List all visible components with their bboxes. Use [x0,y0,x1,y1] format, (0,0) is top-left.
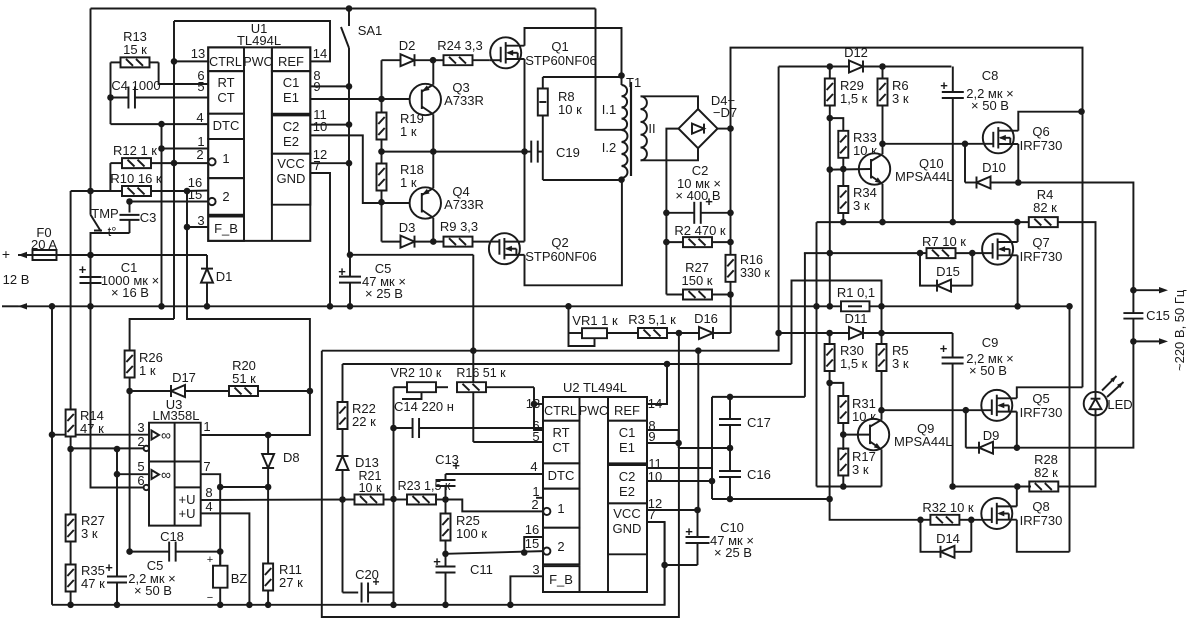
transistor Q10 MPSA44L [830,144,890,222]
wire bottom rail [52,522,665,605]
wire U2 pin7 gnd [647,522,665,605]
transistor Q8 IRF730 [971,498,1017,529]
svg-text:IRF730: IRF730 [1020,138,1063,153]
capacitor C5 47mk [338,255,361,306]
svg-text:VR1 1 к: VR1 1 к [572,313,618,328]
junction Q10 emitter row [879,219,886,226]
svg-text:27 к: 27 к [279,575,303,590]
svg-text:9: 9 [648,429,655,444]
junction R30 jog a [826,380,833,387]
wire R20 right to pin1 row [268,391,310,435]
wire U1 pin9 row [310,98,422,100]
resistor R7 10k [920,248,972,258]
junction D3 Q4 emitter [430,238,437,245]
wire U1 pin8 row [310,85,349,87]
label R30 1,5 к [840,343,868,371]
resistor R1 0,1 [841,301,870,311]
svg-text:R7 10 к: R7 10 к [922,234,966,249]
junction bridge right [727,125,734,132]
wire U1 pin7 down [310,173,330,306]
junction x698 plus row [695,347,702,354]
svg-text:TL494L: TL494L [237,33,281,48]
svg-text:C15: C15 [1146,308,1170,323]
junction R2 left [663,239,670,246]
potentiometer VR1 1k [569,328,640,346]
wire C10 bottom row [665,564,698,566]
svg-text:E1: E1 [619,440,635,455]
diode D16 [679,295,731,340]
junction rail x1069 [1066,303,1073,310]
wire left vertical to TMP [90,9,92,215]
wire U2 pin8 [647,430,679,448]
resistor R33 10k [838,131,848,186]
label D8 [283,450,300,465]
junction d16 row x778 [775,330,782,337]
node plus input arrow [2,246,27,262]
label Q10 [895,156,954,184]
capacitor C10 47mk [685,510,709,565]
label C2 [675,163,721,203]
wire output top row [1018,183,1133,291]
label R1 0,1 [837,285,875,300]
junction D13 res row [339,496,346,503]
svg-text:D14: D14 [936,531,960,546]
wire Q5 drain [1017,387,1083,398]
svg-text:8: 8 [205,485,212,500]
resistor R23 1,5 [394,495,446,505]
label C14 220 н [394,399,454,414]
label BZ [231,571,248,586]
label U1 [251,21,268,36]
junction R7 right [969,250,976,257]
U2 right column cells [608,397,647,554]
wire D16-D11 row [779,332,849,334]
junction R35 bottom [67,602,74,609]
label R31 10 к [852,396,876,424]
junction R2 right [727,239,734,246]
wire U2 pin9 [647,442,679,444]
wire R30 to R31 jog [830,383,844,397]
wire U2 pin13 stub [534,403,543,405]
svg-text:II: II [648,121,655,136]
wire pin15 to C3 [130,201,209,203]
junction link right [265,484,272,491]
svg-text:R1 0,1: R1 0,1 [837,285,875,300]
capacitor C3 [120,202,140,234]
transformer T1 secondary II [641,96,647,160]
node minus input arrow [2,303,27,309]
svg-text:C2: C2 [619,469,636,484]
wire pin16 jog [524,537,543,553]
U3 amp symbol b [152,467,172,483]
U3 amp symbol a [152,427,172,443]
svg-text:D2: D2 [399,38,416,53]
svg-text:3 к: 3 к [892,356,909,371]
label R27 3 к [81,513,105,541]
capacitor C17 [719,397,741,448]
label R11 27 к [279,562,303,590]
junction pin4 rail [246,602,253,609]
junction D2 Q3 emitter [430,57,437,64]
svg-text:∞: ∞ [161,427,171,443]
U1 pin 15 bubble [208,198,215,205]
svg-text:Q8: Q8 [1032,499,1049,514]
label R5 3 к [892,343,909,371]
junction pin1 x161 [158,145,165,152]
junction rail x1017 [1014,303,1021,310]
wire center tap feed [596,9,622,130]
wire LED to R28 [1057,416,1096,486]
wire Q1 drain to top [525,28,622,76]
resistor R34 3k [838,186,848,222]
wire x698 vcc up [697,352,699,510]
resistor R21 10k [355,495,394,505]
svg-text:REF: REF [614,403,640,418]
junction C19 left [521,148,528,155]
label C15 [1146,308,1170,323]
svg-text:GND: GND [613,521,642,536]
label 12 В [3,272,30,287]
label C9 [966,335,1014,378]
capacitor C9 2,2mk [940,333,964,487]
wire comparator row [343,363,792,365]
svg-text:CTRL: CTRL [209,55,242,69]
wire C3 bottom to switch [91,232,130,234]
label Q7 [1020,235,1063,264]
junction R30 top [826,330,833,337]
op-amp U1 outer box [208,47,310,241]
svg-text:R16 51 к: R16 51 к [456,366,506,380]
svg-text:× 50 В: × 50 В [971,98,1009,113]
svg-text:1: 1 [557,501,564,516]
capacitor C15 [1123,290,1143,341]
wire D3 left from R18 [381,202,383,241]
wire U3 pin2 row [71,447,145,449]
label R16 51 к [456,366,506,380]
junction x349 pin11row [346,121,353,128]
svg-text:16: 16 [525,522,539,537]
label C17 [747,415,771,430]
label R4 82 к [1033,187,1057,215]
svg-text:3: 3 [197,213,204,228]
svg-text:15: 15 [525,536,539,551]
svg-text:15: 15 [188,187,202,202]
svg-text:T1: T1 [626,75,641,90]
capacitor C1 [79,255,102,306]
transistor Q4 A733R [410,152,441,242]
wire DC bus down [1082,112,1084,388]
junction C16 bottom [727,496,734,503]
junction pin3 left rail [49,431,56,438]
wire x175 from top rail [173,21,175,319]
svg-text:~220 В, 50 Гц: ~220 В, 50 Гц [1172,289,1187,371]
U1 PWC divider [271,47,273,241]
svg-text:+U: +U [179,492,196,507]
wire +12V input rail [18,254,207,256]
junction R25 bottom [442,551,449,558]
resistor R18 1k [377,152,387,203]
svg-text:C16: C16 [747,467,771,482]
svg-text:R16: R16 [740,253,763,267]
wire res row to pin2 [446,500,544,512]
label R10 16 к [110,171,162,186]
label C3 [140,210,157,225]
svg-text:F_B: F_B [214,221,238,236]
junction R23 right C13 [442,496,449,503]
svg-text:+: + [940,78,948,93]
svg-text:5: 5 [137,459,144,474]
junction R18 bottom [378,199,385,206]
label C11 [470,562,493,577]
svg-text:PWC: PWC [243,55,272,69]
wire R28 left [953,486,1031,488]
svg-text:C19: C19 [556,145,580,160]
junction R27 right [727,291,734,298]
wire x187 feedback vertical [187,191,310,391]
svg-text:× 25 В: × 25 В [365,286,403,301]
junction R10 x90 [87,188,94,195]
wire x90 to minus rail [90,255,92,306]
svg-text:C1: C1 [283,75,300,90]
wire bridge left down [666,129,678,295]
U2 cell texts [544,403,641,587]
wire U2 pin10 [647,480,712,482]
label Q6 [1020,124,1063,153]
capacitor C19 [525,141,543,163]
wire top rail [91,8,596,10]
label I.1 [602,102,616,117]
resistor R2 470k [666,237,730,247]
svg-text:C9: C9 [982,335,999,350]
junction Q9 base [840,431,847,438]
svg-text:C18: C18 [160,529,184,544]
junction pin5 x117 [114,471,121,478]
label Q4 [444,184,484,212]
svg-text:A733R: A733R [444,93,484,108]
resistor R3 5,1k [638,328,679,338]
junction Q9 collector [878,407,885,414]
junction C5 top [347,252,354,259]
transistor Q9 MPSA44L [843,410,889,486]
svg-text:47 к: 47 к [81,576,105,591]
diode D14 [921,520,972,558]
junction D8 top [265,432,272,439]
capacitor C5b 2,2mk [105,448,127,604]
svg-text:PWC: PWC [579,404,608,418]
svg-text:REF: REF [278,54,304,69]
label C13 [435,452,459,467]
switch TMP [91,206,119,255]
svg-text:× 50 В: × 50 В [969,363,1007,378]
wire U1 pin11 row [310,124,349,126]
wire R32 gate feed [830,383,921,520]
label D4-D7 [711,93,737,120]
wire R4 right to LED [1057,222,1096,392]
junction C5b bottom [114,602,121,609]
svg-text:2: 2 [531,497,538,512]
label R27 150 к [682,260,713,288]
junction R7 left [917,250,924,257]
svg-text:4: 4 [196,110,203,125]
svg-text:C3: C3 [140,210,157,225]
svg-text:VR2 10 к: VR2 10 к [391,366,442,380]
svg-text:D11: D11 [845,311,868,326]
svg-text:82 к: 82 к [1034,465,1058,480]
junction R20 right x310 [307,388,314,395]
wire Q5 source [1016,412,1018,448]
svg-text:E2: E2 [619,484,635,499]
U2 pin numbers left [525,396,540,577]
junction x117 pin2 [114,446,121,453]
junction R29 jog [827,115,834,122]
svg-text:+: + [2,246,10,262]
svg-text:7: 7 [313,158,320,173]
capacitor C14 220n [394,418,544,438]
svg-text:t°: t° [108,224,117,239]
potentiometer VR2 10k [394,382,449,399]
diode D9 [966,410,1017,454]
wire -12V rail [18,305,882,307]
junction link left [217,484,224,491]
junction Q6 drain bus [1078,108,1085,115]
junction R34 bottom [840,219,847,226]
junction Q10 base [840,166,847,173]
label R14 47 к [80,408,104,436]
svg-text:5: 5 [197,79,204,94]
junction D10 right [1015,179,1022,186]
wire Q6 drain [1018,112,1082,131]
junction x161 rail [158,303,165,310]
wire AC out bottom [1133,338,1168,344]
wire Q8 source [1017,520,1070,552]
svg-text:VCC: VCC [613,506,640,521]
resistor R27 150k [666,290,730,300]
wire secondary bottom [641,148,699,160]
svg-text:× 25 В: × 25 В [714,545,752,560]
label II [648,121,655,136]
label R19 1 к [400,111,424,139]
resistor R8 10k [538,77,548,180]
U2 left column cells [543,397,580,592]
svg-text:F_B: F_B [549,572,573,587]
svg-text:IRF730: IRF730 [1020,405,1063,420]
U1 pin numbers right [313,46,327,173]
wire Q2 source path [525,180,622,286]
wire x1069 down [1069,306,1071,552]
U2 pin 2 bubble [543,508,550,515]
svg-text:10 к: 10 к [359,481,382,495]
svg-text:22 к: 22 к [352,414,376,429]
svg-text:LM358L: LM358L [153,408,200,423]
transformer T1 primary I.1 [622,85,628,130]
junction x349 pin8row [346,83,353,90]
junction pin13 x534 [531,401,538,408]
junction C2 right [727,210,734,217]
label 20 A [31,237,57,252]
svg-text:D1: D1 [216,269,233,284]
label Q1 [525,39,597,68]
junction x393 res row [390,496,397,503]
U3 +U labels [179,492,196,521]
wire x175 corner to R26 [130,319,174,351]
wire R8 bottom row [543,179,622,181]
svg-text:Q7: Q7 [1032,235,1049,250]
wire left rail x52 [51,306,53,605]
svg-text:D15: D15 [936,264,960,279]
junction D9 right [1014,444,1021,451]
diode D2 [382,38,434,99]
svg-text:3 к: 3 к [892,91,909,106]
label U2 TL494L [563,380,627,395]
op-amp U3 box [149,423,201,526]
junction x349 pin12row [346,160,353,167]
label F0 [36,225,51,240]
junction SA1 top [346,5,353,12]
diode D8 [262,435,274,563]
svg-text:C11: C11 [470,562,493,577]
svg-text:D10: D10 [982,160,1006,175]
label T1 [626,75,641,90]
resistor R9 3,3 [433,237,489,247]
svg-text:R9 3,3: R9 3,3 [440,219,478,234]
label Q9 [894,421,953,449]
diode D13 [337,455,379,499]
junction TMP bottom on +rail [87,252,94,259]
svg-text:47 к: 47 к [80,421,104,436]
label C4 1000 [111,78,160,93]
svg-text:3: 3 [137,420,144,435]
svg-text:2: 2 [222,189,229,204]
svg-text:+: + [685,524,693,539]
wire pin15 row [446,551,544,554]
junction R14 bottom [67,446,74,453]
wire R8 top to T1 [543,76,622,78]
junction x667 ref row [664,361,671,368]
junction output top [1130,287,1137,294]
U1 pin 2 bubble [208,158,215,165]
svg-text:D13: D13 [355,455,379,470]
svg-text:D9: D9 [983,428,1000,443]
U3 pin bubbles [144,446,149,491]
label R32 10 к [922,500,974,515]
svg-text:D17: D17 [172,370,196,385]
junction C3 top pin15 [126,198,133,205]
resistor R26 1k [125,351,135,392]
svg-text:R32 10 к: R32 10 к [922,500,974,515]
svg-text:−D7: −D7 [713,105,737,120]
diode D10 [965,144,1018,189]
junction D11 right [878,330,885,337]
junction pin3 rail U2 [507,602,514,609]
label LED [1107,397,1132,412]
junction row x830 [826,496,833,503]
diode D12 [844,45,951,73]
junction Q3Q4 collectors [430,148,437,155]
resistor R16 330k [726,255,736,295]
label R25 100 к [456,513,487,541]
switch SA1 [341,9,382,49]
junction C5 bottom [347,303,354,310]
junction Q8 drain [1014,483,1021,490]
svg-text:C2: C2 [283,119,300,134]
wire x349 bus [348,48,350,255]
wire pin16 from R10 [187,190,208,193]
resistor R24 3,3 [433,55,490,65]
junction x473 plus row [470,347,477,354]
resistor R22 22k [338,364,348,458]
svg-text:D3: D3 [399,220,416,235]
wire U3 pin1 [201,434,268,436]
